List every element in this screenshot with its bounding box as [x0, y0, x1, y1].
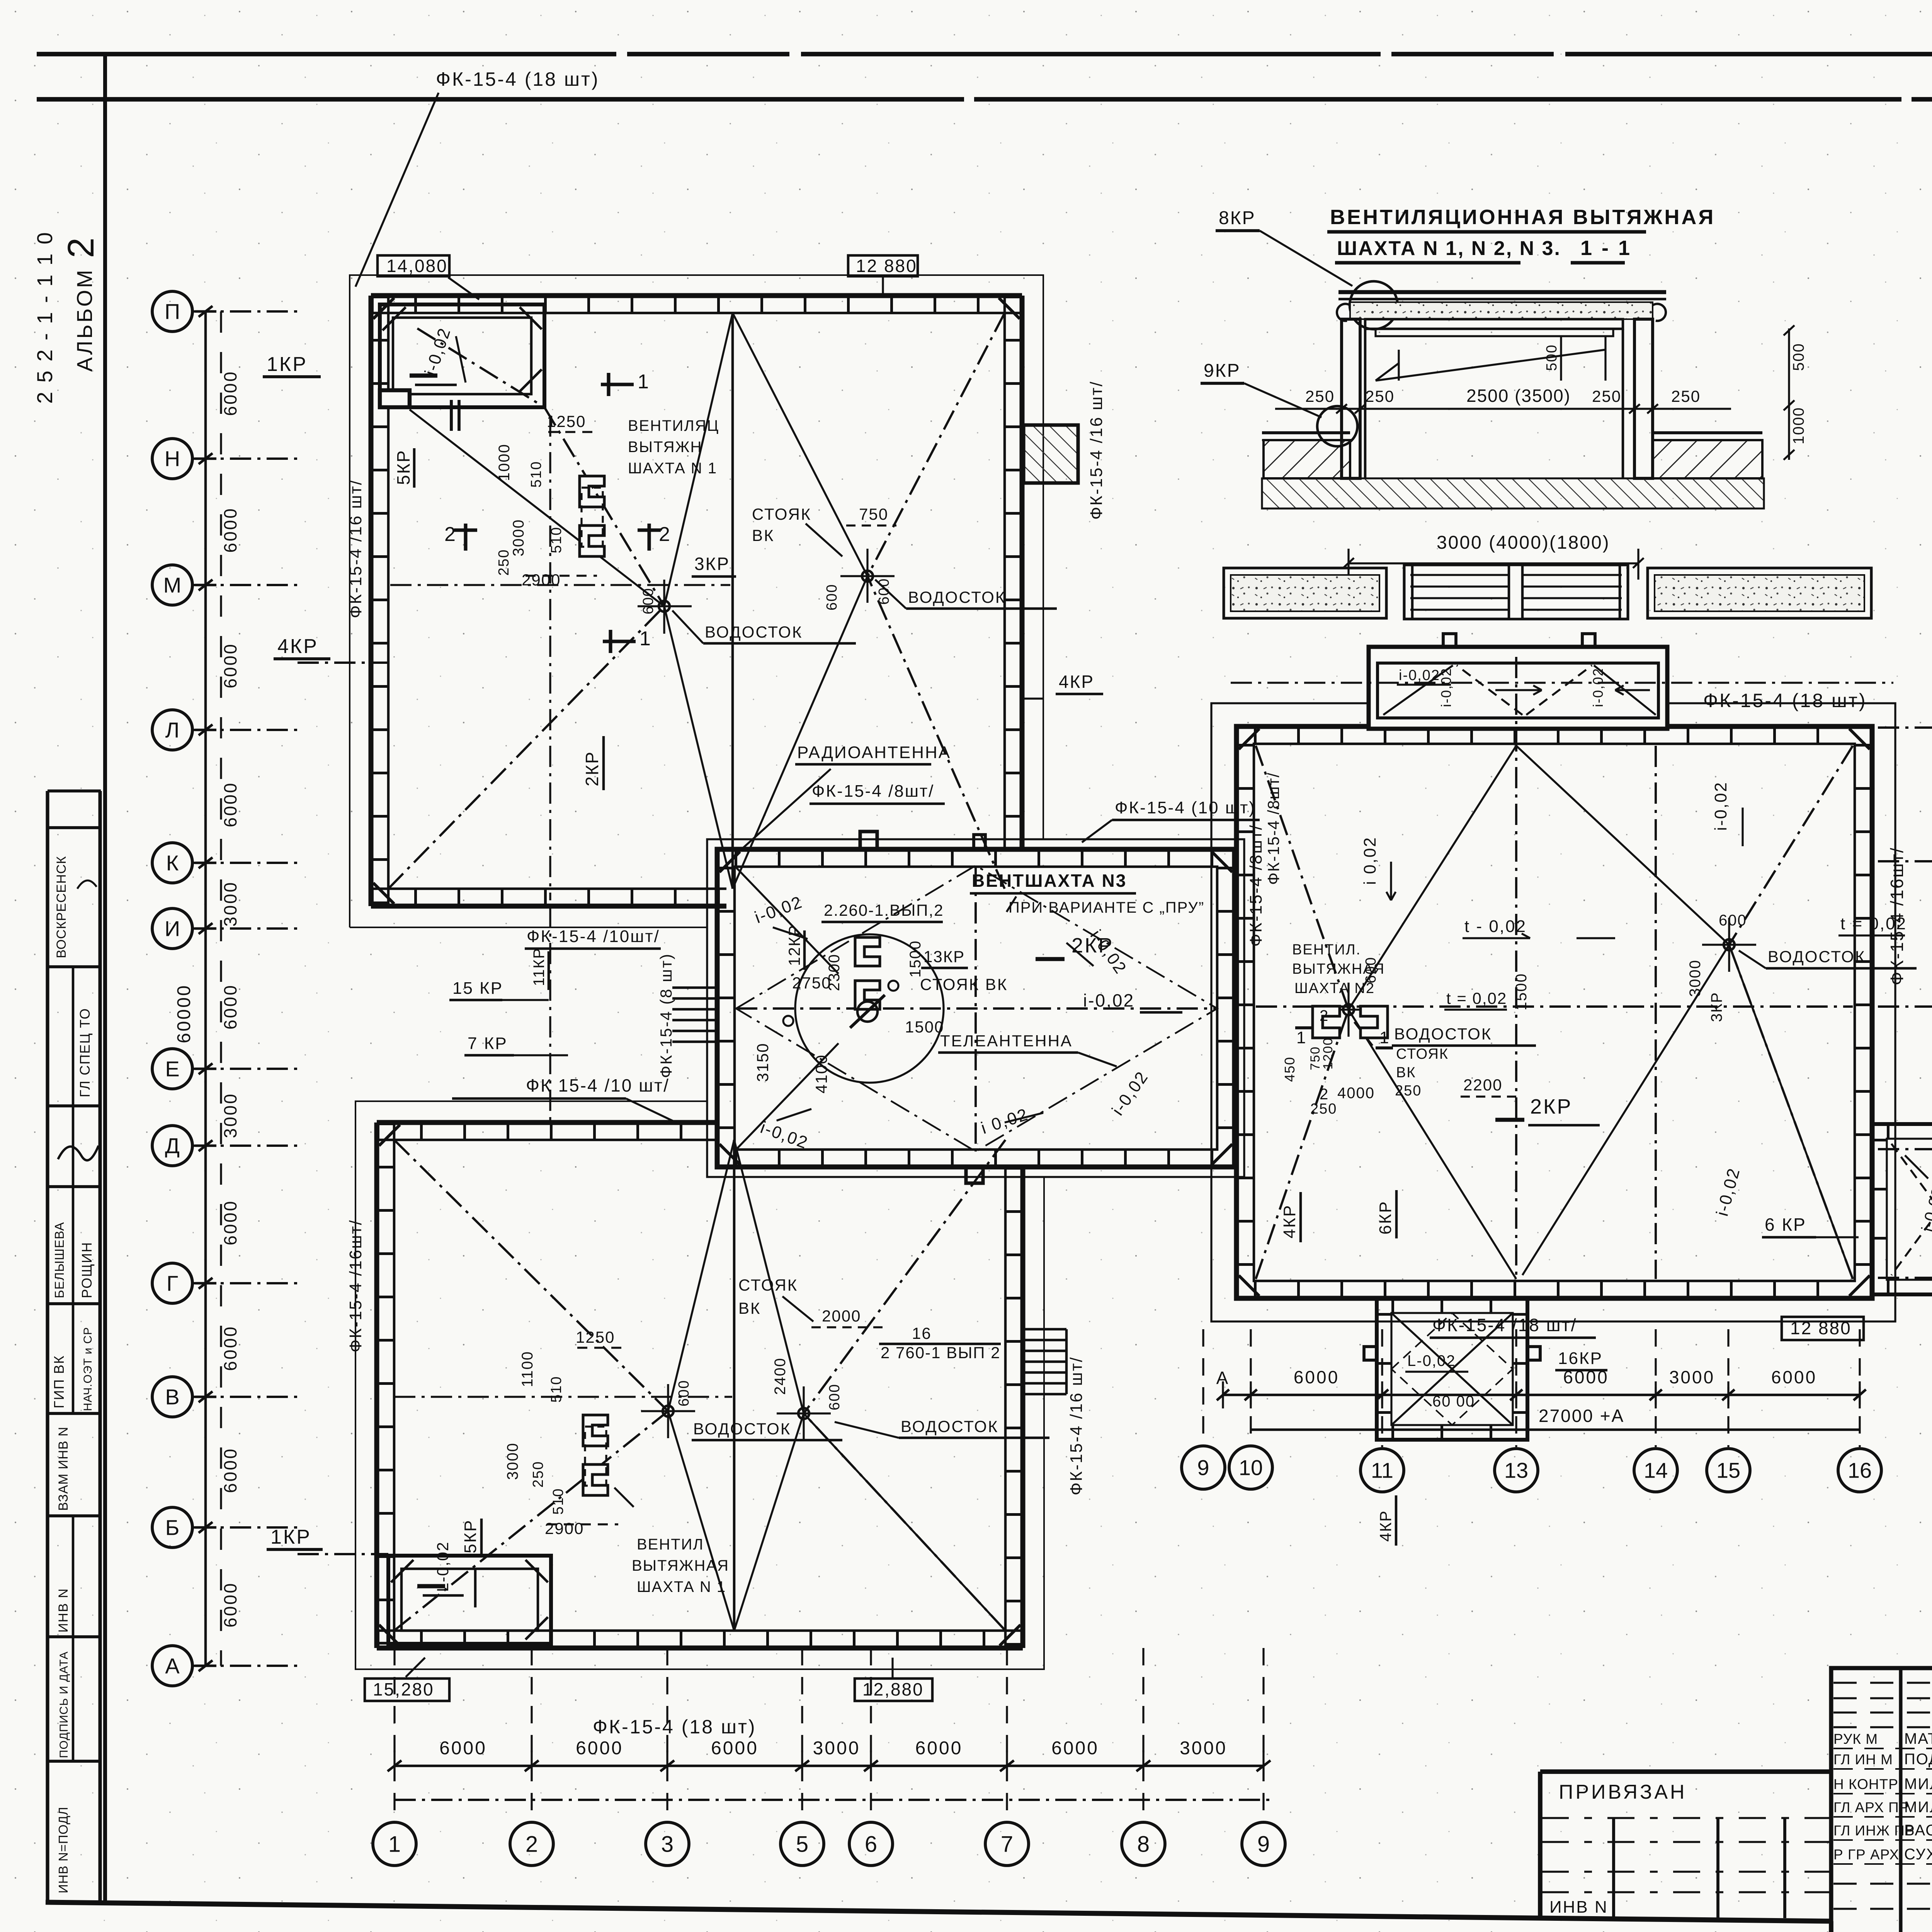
- block A wall right partial: [1020, 296, 1025, 849]
- block A stairwell notch: [380, 390, 410, 407]
- svg-text:1: 1: [1296, 1028, 1307, 1047]
- svg-text:4КР: 4КР: [277, 635, 318, 658]
- svg-text:3000 (4000)(1800): 3000 (4000)(1800): [1437, 532, 1610, 553]
- svg-text:ГЛ СПЕЦ ТО: ГЛ СПЕЦ ТО: [77, 1008, 93, 1097]
- svg-text:510: 510: [548, 1376, 565, 1403]
- svg-text:6000: 6000: [220, 984, 240, 1029]
- section 1-1 right dim column: [1788, 328, 1790, 460]
- svg-text:7: 7: [1001, 1832, 1013, 1857]
- svg-text:250: 250: [1671, 387, 1701, 405]
- svg-text:ГИП ВК: ГИП ВК: [51, 1355, 67, 1408]
- block A level box 12 880: [848, 255, 918, 276]
- axis circle 11 bottom right: [1361, 1449, 1404, 1492]
- title block left columns: [1899, 1668, 1902, 1932]
- block D right protrusion diagonals: [1891, 1144, 1932, 1275]
- svg-text:ШАХТА N2: ШАХТА N2: [1294, 980, 1375, 997]
- left stamp signature squiggle: [58, 1146, 99, 1160]
- svg-text:L-0,02: L-0,02: [1407, 1352, 1456, 1369]
- block D vent shaft N2 symbols: [1313, 1006, 1340, 1038]
- svg-text:2: 2: [1320, 1007, 1330, 1024]
- svg-text:Л: Л: [165, 718, 180, 742]
- svg-text:3000: 3000: [1180, 1738, 1227, 1759]
- block C diamond dash-dot: [736, 866, 1217, 1151]
- block D corner bevels: [1239, 729, 1259, 749]
- axis Г dash-dot line: [193, 1282, 298, 1284]
- svg-text:ВОДОСТОК: ВОДОСТОК: [1768, 947, 1866, 966]
- block C arrows on slopes: [773, 927, 808, 939]
- svg-text:ИНВ N: ИНВ N: [56, 1588, 71, 1633]
- block B vent shaft N1 symbols: [583, 1415, 608, 1446]
- svg-text:i-0,02: i-0,02: [1399, 667, 1440, 684]
- panel plate ribbed middle: [1404, 565, 1628, 619]
- svg-text:1250: 1250: [576, 1328, 615, 1346]
- svg-text:2900: 2900: [522, 571, 561, 589]
- axis Л right dash line: [1878, 726, 1932, 729]
- svg-text:Б: Б: [165, 1515, 180, 1540]
- svg-text:6000: 6000: [1051, 1738, 1099, 1759]
- svg-text:2000: 2000: [822, 1307, 861, 1325]
- svg-text:ВОДОСТОК: ВОДОСТОК: [1394, 1025, 1492, 1043]
- svg-text:14: 14: [1644, 1458, 1668, 1483]
- section 1-1 right wall: [1634, 319, 1653, 478]
- axis Н dash-dot line: [193, 457, 298, 460]
- svg-text:А: А: [165, 1654, 180, 1678]
- svg-text:750: 750: [859, 505, 888, 523]
- svg-text:27000 +А: 27000 +А: [1539, 1406, 1624, 1426]
- svg-text:МИЛЕШИН: МИЛЕШИН: [1904, 1799, 1932, 1816]
- block D drains: [1343, 1004, 1354, 1015]
- svg-text:СТОЯК: СТОЯК: [1396, 1046, 1449, 1062]
- svg-text:1000: 1000: [1790, 407, 1807, 444]
- axis Л dash-dot line: [193, 729, 298, 731]
- svg-text:ПОДОЛЬСКИЙ: ПОДОЛЬСКИЙ: [1904, 1750, 1932, 1768]
- block A stairwell vent bars: [410, 374, 437, 378]
- svg-text:6000: 6000: [576, 1738, 623, 1759]
- svg-text:БЕЛЫШЕВА: БЕЛЫШЕВА: [52, 1222, 66, 1298]
- svg-text:2КР: 2КР: [582, 751, 602, 786]
- svg-text:ВЕНТИЛ.: ВЕНТИЛ.: [1292, 942, 1361, 958]
- svg-text:450: 450: [1282, 1056, 1298, 1082]
- block C antenna circle: [795, 934, 944, 1083]
- svg-text:1200: 1200: [1321, 1037, 1335, 1070]
- svg-text:РАДИОАНТЕННА: РАДИОАНТЕННА: [797, 743, 951, 762]
- svg-text:ФК-15-4 /18 шт/: ФК-15-4 /18 шт/: [1432, 1315, 1577, 1335]
- privyazan table columns: [1612, 1818, 1615, 1917]
- svg-text:500: 500: [1790, 343, 1807, 371]
- svg-text:ШАХТА N 1: ШАХТА N 1: [628, 460, 717, 477]
- axis circle 16 bottom right: [1838, 1449, 1881, 1492]
- title block outer: [1831, 1668, 1932, 1932]
- svg-text:600: 600: [640, 588, 656, 614]
- svg-text:600: 600: [827, 1384, 843, 1410]
- svg-text:МИЛЕШИН: МИЛЕШИН: [1904, 1776, 1932, 1793]
- svg-text:250: 250: [1305, 387, 1335, 405]
- svg-text:12КР: 12КР: [785, 925, 803, 966]
- axis circle Д left: [152, 1126, 192, 1166]
- svg-text:3000: 3000: [1687, 959, 1704, 997]
- svg-text:РОЩИН: РОЩИН: [79, 1242, 95, 1298]
- svg-text:250: 250: [1592, 387, 1621, 405]
- section 1-1 leader circle left bottom: [1317, 406, 1357, 446]
- svg-text:СУХАНОВ: СУХАНОВ: [1904, 1846, 1932, 1863]
- svg-text:6000: 6000: [915, 1738, 963, 1759]
- block D right protrusion: [1872, 1124, 1932, 1294]
- svg-text:ВОДОСТОК: ВОДОСТОК: [908, 588, 1006, 606]
- svg-text:ФК-15-4 /10шт/: ФК-15-4 /10шт/: [527, 927, 660, 946]
- axis Д right dash line: [1878, 1148, 1932, 1150]
- svg-text:6: 6: [865, 1832, 877, 1857]
- svg-text:2400: 2400: [772, 1357, 789, 1395]
- svg-text:15: 15: [1716, 1458, 1740, 1483]
- svg-text:6000: 6000: [220, 370, 240, 416]
- left stamp column dividers: [48, 789, 101, 793]
- svg-text:7 КР: 7 КР: [468, 1034, 508, 1053]
- svg-text:3000: 3000: [220, 1092, 240, 1138]
- svg-text:4КР: 4КР: [1059, 672, 1094, 692]
- axis К dash-dot line: [193, 862, 298, 864]
- section 1-1 top cap slab: [1338, 290, 1666, 294]
- svg-text:250: 250: [496, 549, 512, 576]
- axis circle Г left: [152, 1263, 192, 1303]
- axis circle 9 bottom: [1242, 1822, 1285, 1866]
- axis Ж right dash line: [1878, 1005, 1932, 1008]
- svg-text:3000: 3000: [510, 519, 527, 556]
- svg-text:1500: 1500: [905, 1018, 944, 1036]
- block B wall top partial: [377, 1120, 717, 1125]
- svg-text:ИНВ N: ИНВ N: [1549, 1898, 1608, 1917]
- title block left rows dashed top: [1833, 1682, 1932, 1684]
- block B eaves outline: [355, 1101, 1044, 1669]
- axis circle 6 bottom: [849, 1822, 893, 1866]
- svg-text:6000: 6000: [1294, 1367, 1339, 1387]
- bottom right axis extension dash lines: [1202, 1329, 1204, 1444]
- block B level box 12,880: [855, 1679, 932, 1701]
- block A right hatched attachment: [1024, 425, 1078, 483]
- block D outer wall ring: [1236, 726, 1872, 1298]
- svg-text:9: 9: [1197, 1456, 1209, 1480]
- total dim 27000+A: [1251, 1429, 1860, 1431]
- section 1-1 left wall: [1342, 319, 1360, 478]
- svg-text:600: 600: [676, 1380, 692, 1406]
- svg-text:510: 510: [548, 527, 565, 553]
- svg-text:ВЕНТИЛЯЦИОННАЯ ВЫТЯЖНАЯ: ВЕНТИЛЯЦИОННАЯ ВЫТЯЖНАЯ: [1330, 206, 1715, 229]
- axis circle 13 bottom right: [1495, 1449, 1538, 1492]
- svg-text:i-0,02: i-0,02: [1438, 668, 1454, 707]
- block D valley lines: [1349, 746, 1516, 1010]
- svg-text:12 880: 12 880: [1790, 1318, 1852, 1338]
- svg-text:4КР: 4КР: [1280, 1204, 1299, 1238]
- block D axis verticals dash-dot: [1515, 657, 1517, 1279]
- svg-text:i-0,02: i-0,02: [1083, 990, 1134, 1010]
- block C top tabs: [860, 832, 877, 849]
- svg-text:ФК 15-4 /10 шт/: ФК 15-4 /10 шт/: [526, 1075, 670, 1095]
- svg-text:250: 250: [1365, 387, 1395, 405]
- block D dormer tabs: [1443, 634, 1456, 647]
- block B level box 15,280: [365, 1679, 449, 1701]
- svg-text:Н КОНТР: Н КОНТР: [1833, 1776, 1898, 1792]
- svg-text:3150: 3150: [753, 1043, 772, 1082]
- svg-text:t - 0,02: t - 0,02: [1464, 917, 1527, 936]
- svg-text:ВЕНТШАХТА N3: ВЕНТШАХТА N3: [972, 871, 1127, 891]
- block B drains: [663, 1406, 673, 1417]
- svg-text:2500 (3500): 2500 (3500): [1466, 386, 1571, 406]
- axis circle И left: [152, 908, 192, 949]
- sheet top border line lower: [37, 97, 1932, 102]
- axis circle Б left: [152, 1507, 192, 1548]
- section 1-1 bottom dim: [1349, 562, 1638, 564]
- block C vent symbols: [855, 937, 880, 966]
- svg-text:6000: 6000: [439, 1738, 487, 1759]
- svg-text:510: 510: [550, 1488, 566, 1515]
- block B hip diagonals: [394, 1140, 668, 1411]
- axis circle Л left: [152, 710, 192, 750]
- block B ridge line: [733, 1140, 736, 1631]
- svg-text:9: 9: [1257, 1832, 1270, 1857]
- svg-text:ФК-15-4 (18 шт): ФК-15-4 (18 шт): [436, 68, 600, 90]
- block A drain 2: [862, 571, 873, 582]
- block A drain 1: [659, 601, 670, 612]
- svg-text:6000: 6000: [1771, 1367, 1817, 1387]
- axis circle В left: [152, 1377, 192, 1417]
- svg-text:8КР: 8КР: [1219, 208, 1256, 228]
- svg-text:16: 16: [912, 1324, 932, 1342]
- svg-text:10: 10: [1239, 1456, 1263, 1480]
- svg-text:11: 11: [1371, 1458, 1393, 1483]
- block B right ladder attachment: [1025, 1328, 1066, 1331]
- section 1-1 ground hatch: [1262, 478, 1764, 509]
- svg-text:2 760-1 ВЫП 2: 2 760-1 ВЫП 2: [881, 1344, 1001, 1362]
- svg-text:СТОЯК: СТОЯК: [752, 505, 811, 523]
- axis circle 3 bottom: [646, 1822, 689, 1866]
- svg-text:6000: 6000: [1563, 1367, 1609, 1387]
- svg-text:1500: 1500: [907, 940, 924, 978]
- svg-text:2.260-1.ВЫП,2: 2.260-1.ВЫП,2: [824, 901, 944, 919]
- title block lower rows dashed: [1833, 1883, 1932, 1884]
- svg-text:12 880: 12 880: [856, 256, 917, 276]
- axis circle 10 bottom right: [1229, 1446, 1272, 1489]
- block A eaves outline: [350, 275, 1043, 927]
- block A stairwell room: [380, 304, 544, 407]
- svg-text:15,280: 15,280: [373, 1679, 434, 1699]
- svg-text:2: 2: [526, 1832, 538, 1857]
- svg-text:1500: 1500: [1513, 973, 1530, 1010]
- svg-text:1КР: 1КР: [267, 353, 308, 376]
- svg-text:А: А: [1216, 1368, 1230, 1388]
- axis circle Е left: [152, 1049, 192, 1089]
- svg-text:2: 2: [659, 523, 672, 546]
- svg-text:3000: 3000: [504, 1442, 521, 1480]
- svg-text:1 - 1: 1 - 1: [1580, 236, 1632, 260]
- svg-text:5КР: 5КР: [461, 1519, 480, 1553]
- svg-text:В: В: [165, 1385, 179, 1409]
- block B stairwell vent bars: [417, 1584, 445, 1588]
- svg-text:ВК: ВК: [1396, 1065, 1416, 1081]
- svg-text:Н: Н: [165, 447, 180, 471]
- section 1-1 base slabs: [1264, 440, 1350, 478]
- svg-text:6КР: 6КР: [1376, 1201, 1395, 1235]
- svg-text:ШАХТА N 1, N 2, N 3.: ШАХТА N 1, N 2, N 3.: [1337, 237, 1561, 260]
- svg-text:16КР: 16КР: [1558, 1349, 1603, 1368]
- block D eaves outline: [1211, 703, 1895, 1321]
- svg-text:2900: 2900: [545, 1519, 584, 1537]
- svg-text:ВОДОСТОК: ВОДОСТОК: [901, 1417, 998, 1435]
- block D bottom protrusion (axes 11-13): [1377, 1298, 1527, 1440]
- axis П dash-dot line: [193, 310, 298, 313]
- svg-text:2300: 2300: [826, 954, 843, 991]
- svg-text:2: 2: [444, 523, 457, 546]
- svg-text:600: 600: [1719, 912, 1747, 929]
- block A section mark 1 bottom: [603, 639, 636, 643]
- panel plate speckled left: [1224, 568, 1386, 618]
- svg-text:600: 600: [824, 584, 840, 611]
- svg-text:6000: 6000: [220, 782, 240, 827]
- svg-text:ВАСИНА: ВАСИНА: [1904, 1822, 1932, 1839]
- svg-text:ФК-15-4 (18 шт): ФК-15-4 (18 шт): [1703, 690, 1867, 711]
- block A axis dash-dot vertical: [549, 415, 551, 900]
- svg-text:t = 0,02: t = 0,02: [1446, 989, 1507, 1007]
- svg-text:6000: 6000: [220, 1325, 240, 1371]
- svg-text:5КР: 5КР: [393, 449, 413, 485]
- section 1-1 inner slope line: [1376, 350, 1605, 381]
- svg-text:ГЛ ИНЖ ПР: ГЛ ИНЖ ПР: [1833, 1823, 1915, 1838]
- svg-text:ШАХТА N 1: ШАХТА N 1: [637, 1578, 726, 1595]
- svg-text:3000: 3000: [813, 1738, 861, 1759]
- svg-text:1: 1: [638, 371, 650, 393]
- block A ridge line: [731, 313, 734, 889]
- svg-text:5: 5: [796, 1832, 808, 1857]
- axis Б dash-dot line: [193, 1526, 298, 1529]
- axis circle 8 bottom: [1122, 1822, 1165, 1866]
- svg-text:ВЕНТИЛ: ВЕНТИЛ: [637, 1536, 704, 1553]
- bottom dimension line axes 1-9: [395, 1765, 1264, 1767]
- axis circle 7 bottom: [985, 1822, 1029, 1866]
- svg-text:ГЛ АРХ ПР: ГЛ АРХ ПР: [1833, 1799, 1909, 1815]
- block A stairwell bottom ticks: [450, 400, 453, 431]
- privyazan table rows: [1542, 1817, 1830, 1819]
- svg-text:500: 500: [1544, 344, 1560, 371]
- svg-text:1: 1: [639, 628, 652, 650]
- section 1-1 roof lines left: [1262, 431, 1350, 434]
- svg-text:ВЫТЯЖНАЯ: ВЫТЯЖНАЯ: [632, 1557, 729, 1574]
- svg-text:ПОДПИСЬ И ДАТА: ПОДПИСЬ И ДАТА: [58, 1651, 70, 1758]
- block C corner bevels: [719, 852, 740, 872]
- svg-text:ВЫТЯЖН: ВЫТЯЖН: [628, 439, 702, 456]
- svg-text:4КР: 4КР: [1376, 1510, 1395, 1542]
- svg-text:АЛЬБОМ: АЛЬБОМ: [72, 268, 97, 372]
- svg-text:МАТОЯН: МАТОЯН: [1904, 1730, 1932, 1747]
- axis circle Н left: [152, 439, 192, 479]
- svg-text:3КР: 3КР: [1708, 992, 1725, 1022]
- block B valley lines: [668, 1140, 734, 1411]
- svg-text:1250: 1250: [547, 412, 586, 430]
- svg-text:ИНВ N=ПОДЛ: ИНВ N=ПОДЛ: [56, 1807, 70, 1894]
- svg-text:6000: 6000: [220, 1200, 240, 1245]
- block A vent shaft N1 symbols: [580, 476, 604, 507]
- svg-text:1: 1: [1379, 1028, 1390, 1047]
- svg-text:250: 250: [1310, 1101, 1337, 1117]
- sheet left border: [103, 54, 107, 1903]
- svg-text:ПРИ ВАРИАНТЕ С „ПРУ”: ПРИ ВАРИАНТЕ С „ПРУ”: [1009, 899, 1204, 916]
- svg-text:250: 250: [530, 1461, 546, 1488]
- section 1-1 inner beam: [1365, 319, 1623, 329]
- svg-text:3КР: 3КР: [694, 554, 730, 574]
- block C antenna center symbol: [857, 1002, 878, 1022]
- section 1-1 shaft inner verticals: [1364, 329, 1367, 478]
- svg-text:16: 16: [1848, 1458, 1872, 1483]
- svg-text:ПРИВЯЗАН: ПРИВЯЗАН: [1559, 1781, 1687, 1803]
- svg-text:3: 3: [661, 1832, 673, 1857]
- svg-text:ФК-15-4 /8шт/: ФК-15-4 /8шт/: [1247, 824, 1265, 947]
- svg-text:2: 2: [60, 236, 102, 258]
- block A valley lines: [664, 313, 733, 606]
- svg-text:ВЗАМ ИНВ N: ВЗАМ ИНВ N: [56, 1427, 71, 1511]
- block A level box 14,080: [378, 255, 449, 276]
- svg-text:ФК-15-4 /16 шт/: ФК-15-4 /16 шт/: [1087, 381, 1106, 520]
- svg-text:Г: Г: [167, 1271, 178, 1296]
- block D t slope arrows: [1577, 937, 1615, 939]
- block B stairwell corner bevels: [391, 1560, 413, 1582]
- axis circle К left: [152, 843, 192, 883]
- block B axis V dash-dot horizontal: [394, 1396, 732, 1398]
- block B wall right partial: [1020, 1167, 1026, 1648]
- svg-text:i-0,02: i-0,02: [1711, 781, 1730, 831]
- axis circle П left: [152, 291, 192, 332]
- svg-text:СТОЯК: СТОЯК: [738, 1276, 798, 1294]
- block B wall bottom: [377, 1646, 1023, 1651]
- svg-text:9КР: 9КР: [1204, 361, 1241, 381]
- svg-text:2200: 2200: [1463, 1076, 1502, 1094]
- svg-text:ФК-15-4 /16шт/: ФК-15-4 /16шт/: [1887, 847, 1907, 985]
- block C ladder attachment left: [672, 986, 716, 989]
- block A section mark 1 top: [601, 383, 634, 386]
- left axis dimension line vertical: [204, 311, 207, 1666]
- svg-text:3000: 3000: [1669, 1367, 1715, 1387]
- svg-text:П: П: [165, 299, 180, 324]
- block A wall left: [369, 296, 374, 906]
- left stamp column verticals: [46, 791, 49, 1902]
- vertical dash axis between blocks: [549, 906, 551, 1122]
- svg-text:6000: 6000: [220, 507, 240, 553]
- svg-text:ВОДОСТОК: ВОДОСТОК: [705, 623, 803, 641]
- svg-text:ФК-15-4 /8шт/: ФК-15-4 /8шт/: [812, 782, 934, 801]
- svg-text:13: 13: [1504, 1458, 1528, 1483]
- axis circle 1 bottom: [373, 1822, 416, 1866]
- svg-text:3000: 3000: [220, 881, 240, 927]
- svg-text:1000: 1000: [496, 444, 513, 481]
- svg-text:ВЕНТИЛЯЦ: ВЕНТИЛЯЦ: [628, 417, 719, 434]
- axis circle 5 bottom: [781, 1822, 824, 1866]
- svg-text:СТОЯК ВК: СТОЯК ВК: [920, 975, 1008, 993]
- axis И dash-dot line: [193, 927, 298, 930]
- bottom axis dash line: [395, 1799, 1275, 1801]
- bottom axis extension lines: [393, 1648, 395, 1824]
- svg-text:11КР: 11КР: [531, 947, 548, 986]
- svg-text:М: М: [163, 573, 182, 597]
- svg-text:8: 8: [1137, 1832, 1150, 1857]
- block A hip diagonals dash-dot: [544, 407, 664, 606]
- axis К right dash line: [1878, 860, 1932, 862]
- svg-text:13КР: 13КР: [923, 947, 965, 966]
- svg-text:ФК-15-4 /16шт/: ФК-15-4 /16шт/: [346, 1219, 365, 1352]
- svg-text:Е: Е: [165, 1057, 179, 1081]
- svg-text:ФК-15-4 (18 шт): ФК-15-4 (18 шт): [593, 1716, 757, 1738]
- svg-text:ВК: ВК: [752, 526, 774, 544]
- block D corner hip diagonals: [1256, 746, 1349, 1010]
- svg-text:14,080: 14,080: [386, 256, 448, 276]
- svg-text:L-0,02: L-0,02: [434, 1541, 452, 1592]
- axis circle 2 bottom: [510, 1822, 553, 1866]
- svg-text:4000: 4000: [1337, 1085, 1375, 1102]
